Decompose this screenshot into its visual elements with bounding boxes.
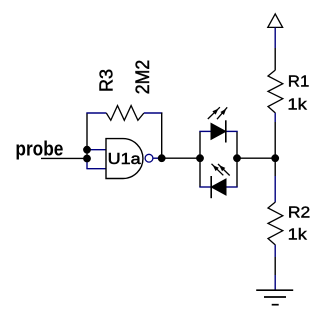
- junction dot output: [158, 154, 166, 162]
- svg-text:R3: R3: [97, 69, 117, 92]
- wire R1 top pin: [274, 48, 276, 70]
- inverter bubble: [145, 154, 153, 162]
- wire VCC to R1 net: [274, 27, 276, 48]
- junction dot input 2: [83, 155, 91, 163]
- LED D2 arrow 2: [218, 164, 230, 176]
- junction dot LED right: [233, 154, 241, 162]
- wire node to R2 black: [274, 158, 276, 176]
- LED D1 triangle: [211, 123, 226, 139]
- wire R1 bottom net: [274, 113, 276, 122]
- wire LED bottom right: [226, 186, 238, 188]
- LED D1 cathode bar: [225, 120, 227, 142]
- wire gate input 1: [87, 149, 106, 151]
- wire feedback top right: [144, 112, 163, 114]
- svg-text:probe: probe: [15, 139, 63, 161]
- LED D2 triangle: [211, 179, 226, 195]
- junction dot rail: [271, 154, 279, 162]
- wire LED block to rail: [237, 157, 275, 159]
- ground symbol: [256, 289, 293, 291]
- svg-text:1k: 1k: [288, 226, 308, 243]
- LED D2 arrow 1: [212, 164, 224, 176]
- wire output to LED block: [162, 157, 200, 159]
- wire LED rect right vertical: [236, 131, 238, 187]
- wire feedback right vertical: [161, 113, 163, 158]
- wire probe input: [41, 157, 87, 159]
- resistor R2 zigzag: [268, 202, 283, 245]
- wire gate input 2 stub down: [86, 159, 88, 169]
- wire R2 bottom navy: [274, 245, 276, 257]
- wire LED bottom left: [199, 186, 211, 188]
- wire to R2 navy: [274, 176, 276, 202]
- LED D1 arrow 1: [208, 107, 220, 119]
- wire bubble to node: [153, 157, 161, 159]
- wire LED top left: [199, 130, 211, 132]
- op-amp U1 gate body (NAND): [106, 139, 143, 179]
- resistor R1 zigzag: [268, 70, 283, 113]
- junction dot input 1: [83, 146, 91, 154]
- wire gate input 2: [86, 168, 106, 170]
- wire LED top right: [226, 130, 238, 132]
- wire R2 bottom black: [274, 257, 276, 275]
- power symbol VCC: [268, 14, 283, 28]
- svg-text:R2: R2: [288, 205, 311, 222]
- LED D2 cathode bar: [210, 176, 212, 198]
- resistor R3 zigzag: [106, 106, 144, 121]
- wire feedback left vertical: [86, 113, 88, 159]
- svg-text:U1a: U1a: [108, 151, 141, 168]
- wire to ground navy: [274, 275, 276, 290]
- wire R1 bottom to node: [274, 122, 276, 158]
- LED D1 arrow 2: [217, 107, 227, 119]
- svg-text:2M2: 2M2: [133, 60, 154, 95]
- svg-text:1k: 1k: [287, 96, 308, 113]
- svg-text:R1: R1: [288, 74, 310, 91]
- junction dot LED left: [196, 154, 204, 162]
- wire LED rect left vertical: [199, 131, 201, 187]
- wire feedback top left: [86, 112, 106, 114]
